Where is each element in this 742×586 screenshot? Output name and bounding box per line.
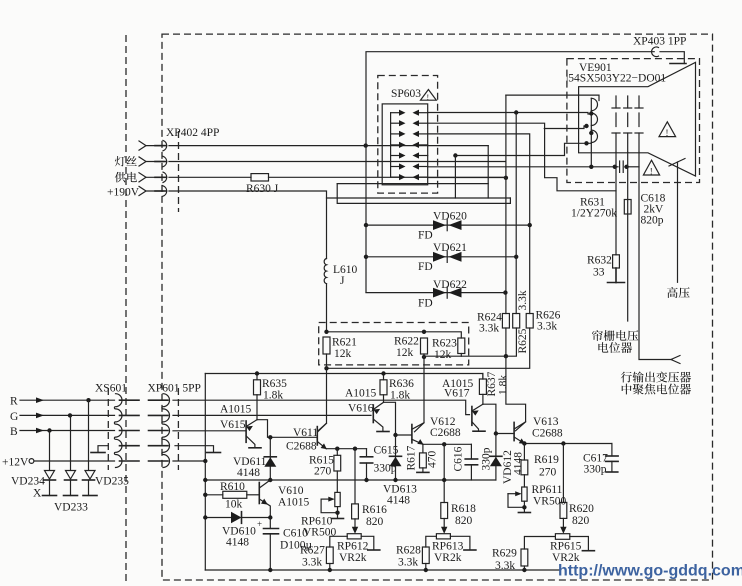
outer dashed border box bbox=[162, 34, 713, 580]
svg-text:RP612: RP612 bbox=[337, 541, 369, 553]
node VD621 row R625 column bbox=[514, 255, 518, 259]
svg-text:XS601: XS601 bbox=[95, 383, 127, 395]
node bus VD620 bbox=[364, 223, 368, 227]
node RP610 wiper join bbox=[335, 511, 339, 515]
svg-text:330p: 330p bbox=[584, 464, 607, 476]
inductor L610 bbox=[324, 259, 326, 284]
warning triangle SP603 bbox=[421, 90, 437, 103]
svg-text:R627: R627 bbox=[300, 545, 325, 557]
svg-text:VD620: VD620 bbox=[433, 211, 467, 223]
wire SP603 row7 supply tap bbox=[428, 177, 506, 179]
resistor R615 bbox=[334, 449, 341, 493]
label 供电 bbox=[115, 172, 137, 183]
node supply row R624 column bbox=[504, 176, 508, 180]
capacitor C610 bbox=[257, 518, 279, 571]
wire V613 emitter rail bbox=[524, 443, 612, 445]
wire maze row alpha bbox=[337, 183, 488, 185]
wire 12k box top line bbox=[327, 332, 462, 338]
node C610 bottom bbox=[268, 568, 272, 572]
svg-text:VD233: VD233 bbox=[54, 502, 88, 514]
wire R624 column upper bbox=[505, 95, 507, 313]
protection diode VD233 bbox=[64, 415, 78, 495]
svg-text:J: J bbox=[340, 275, 345, 287]
resistor R624 bbox=[502, 314, 509, 329]
svg-text:R637: R637 bbox=[486, 371, 498, 396]
node emitter C610 join bbox=[268, 515, 272, 519]
transistor V612 bbox=[412, 423, 424, 445]
diode VD613 bbox=[390, 435, 402, 480]
wire G1 column to R632 bbox=[615, 152, 617, 255]
svg-text:4148: 4148 bbox=[237, 467, 260, 479]
svg-text:B: B bbox=[10, 426, 18, 438]
svg-text:12k: 12k bbox=[434, 349, 452, 361]
svg-text:!: ! bbox=[666, 128, 669, 138]
label 中聚焦电位器 bbox=[622, 384, 691, 395]
resistor R623 bbox=[458, 338, 465, 354]
diode VD611 bbox=[264, 437, 276, 480]
wire R625 column bbox=[515, 113, 517, 314]
node VD611 tap bbox=[268, 435, 272, 439]
svg-text:+190V: +190V bbox=[107, 187, 140, 199]
node heater tap2 bbox=[584, 124, 588, 128]
node R635 top bbox=[255, 371, 259, 375]
wire maze row beta bbox=[327, 197, 511, 199]
svg-text:270: 270 bbox=[314, 466, 332, 478]
node 12k line L610 bbox=[324, 330, 328, 334]
svg-text:270: 270 bbox=[539, 467, 557, 479]
wire L610 to 12k box bbox=[326, 284, 328, 332]
node row1 R625 column bbox=[514, 110, 518, 114]
resistor R637 bbox=[479, 374, 486, 405]
node R610 left bbox=[203, 493, 207, 497]
svg-text:|54SX503Y22−DO01: |54SX503Y22−DO01 bbox=[566, 73, 666, 85]
wire G input bbox=[20, 413, 115, 419]
heater filament bbox=[591, 98, 597, 167]
node heater tap1 bbox=[589, 111, 593, 115]
svg-text:RP611: RP611 bbox=[532, 484, 563, 496]
node VD612 tap bbox=[494, 431, 498, 435]
node heater bottom bbox=[584, 141, 588, 145]
svg-text:R629: R629 bbox=[492, 548, 517, 560]
svg-text:R635: R635 bbox=[262, 378, 287, 390]
svg-text:R622: R622 bbox=[394, 336, 419, 348]
capacitor C618 in cathode line bbox=[614, 161, 639, 172]
wire R624 bottom to line A bbox=[505, 328, 507, 356]
node VD613 tap bbox=[393, 433, 397, 437]
protection diode VD235 bbox=[83, 400, 98, 495]
svg-text:C2688: C2688 bbox=[286, 441, 317, 453]
cable boundary dashed line bbox=[125, 35, 127, 584]
XP402 pin 2 bbox=[139, 156, 167, 166]
resistor R629 bbox=[521, 549, 528, 570]
connector XP402 dashed pin boundary bbox=[178, 131, 180, 212]
svg-text:G: G bbox=[10, 411, 18, 423]
node rail R618 bbox=[442, 478, 446, 482]
svg-text:4148: 4148 bbox=[387, 495, 410, 507]
svg-text:V616: V616 bbox=[348, 403, 374, 415]
diode VD610 bbox=[205, 512, 271, 524]
wire R626 bottom to line B bbox=[327, 328, 530, 368]
video amp board box left edge bbox=[204, 374, 206, 571]
svg-text:+12V: +12V bbox=[2, 457, 29, 469]
node line A R622 column bbox=[422, 355, 426, 359]
svg-text:A1015: A1015 bbox=[345, 388, 377, 400]
svg-text:R618: R618 bbox=[451, 503, 476, 515]
svg-text:VR2k: VR2k bbox=[434, 552, 462, 564]
wire SP603 row1 to heater bbox=[428, 113, 592, 115]
node R619 tap bbox=[522, 441, 526, 445]
wire R input bbox=[20, 397, 115, 403]
wire R623 bottom stub bbox=[460, 354, 462, 357]
svg-text:C615: C615 bbox=[374, 445, 399, 457]
svg-text:VR2k: VR2k bbox=[339, 552, 367, 564]
svg-text:R616: R616 bbox=[362, 504, 387, 516]
ground V615 collector bbox=[249, 447, 261, 449]
node C618 left bbox=[613, 165, 617, 169]
wire +12V row into board bbox=[173, 460, 205, 462]
svg-text:R: R bbox=[10, 396, 18, 408]
svg-text:R625: R625 bbox=[517, 328, 529, 353]
resistor R619 bbox=[521, 444, 528, 488]
svg-text:C610: C610 bbox=[283, 528, 308, 540]
wire SP603 row3 to R626 column bbox=[428, 134, 530, 314]
svg-text:820: 820 bbox=[366, 516, 384, 528]
node R drop bbox=[86, 398, 90, 402]
svg-text:FD: FD bbox=[418, 261, 433, 273]
wire +12V input bbox=[29, 459, 114, 464]
node R615 tap bbox=[335, 447, 339, 451]
dashed box R621 R622 R623 bbox=[319, 323, 469, 365]
svg-text:R620: R620 bbox=[569, 503, 594, 515]
wire line A bbox=[424, 328, 516, 356]
warning triangle lower bbox=[643, 160, 659, 176]
connector XP601 plug bbox=[162, 394, 170, 468]
resistor R636 bbox=[380, 374, 387, 403]
svg-text:XP601 5PP: XP601 5PP bbox=[148, 383, 201, 395]
svg-text:RP613: RP613 bbox=[432, 541, 464, 553]
node row5 tap bbox=[453, 153, 457, 157]
svg-text:RP615: RP615 bbox=[550, 541, 582, 553]
potentiometer RP615 bbox=[524, 534, 594, 551]
dashed marks XP601 bbox=[177, 388, 179, 470]
svg-text:R619: R619 bbox=[534, 454, 559, 466]
wire V617 emitter to V613 base bbox=[483, 404, 514, 433]
node R628 bottom bbox=[424, 568, 428, 572]
svg-text:A1015: A1015 bbox=[278, 497, 310, 509]
svg-text:330p: 330p bbox=[481, 447, 493, 470]
label 高压 bbox=[667, 287, 690, 298]
svg-text:VR500: VR500 bbox=[533, 496, 566, 508]
ground left shield bbox=[91, 446, 108, 453]
svg-text:XP402 4PP: XP402 4PP bbox=[166, 127, 219, 139]
trimmer RP610 bbox=[321, 492, 343, 518]
wire supply row from R630 to corner bbox=[269, 176, 506, 178]
capacitor C616 bbox=[465, 444, 477, 480]
svg-text:V610: V610 bbox=[278, 485, 304, 497]
svg-text:4148: 4148 bbox=[513, 452, 525, 475]
wire pin4 +190V row bbox=[169, 191, 327, 259]
resistor R621 bbox=[323, 337, 330, 354]
svg-text:SP603: SP603 bbox=[391, 88, 421, 100]
wire V612 emitter rail bbox=[423, 443, 472, 445]
node VD610 left bbox=[203, 515, 207, 519]
svg-text:R630 J: R630 J bbox=[246, 183, 279, 195]
svg-text:3.3k: 3.3k bbox=[398, 557, 418, 569]
node R616 tap bbox=[353, 447, 357, 451]
tube electrode G2 bbox=[624, 96, 632, 152]
transistor V613 bbox=[514, 422, 526, 444]
SP603 left bus bbox=[390, 113, 392, 177]
svg-text:3.3k: 3.3k bbox=[495, 560, 515, 572]
svg-text:12k: 12k bbox=[334, 348, 352, 360]
node R620 tap bbox=[561, 441, 565, 445]
node bus VD621 bbox=[364, 255, 368, 259]
svg-text:V613: V613 bbox=[533, 416, 559, 428]
wire V615 emitter to V611 base bbox=[257, 420, 317, 438]
svg-text:V611: V611 bbox=[293, 427, 318, 439]
XP402 pin 3 bbox=[139, 172, 167, 182]
svg-text:12k: 12k bbox=[396, 347, 414, 359]
bidirectional diode VD621 bbox=[366, 251, 516, 262]
wire B row into board bbox=[173, 430, 246, 432]
dashed marks XS601 bbox=[107, 388, 109, 470]
svg-text:X: X bbox=[33, 488, 42, 500]
svg-text:R621: R621 bbox=[332, 337, 357, 349]
wire V616 emitter to V612 base bbox=[384, 402, 412, 435]
spark-gap assembly SP603 dashed box bbox=[378, 76, 438, 194]
svg-text:R617: R617 bbox=[406, 445, 418, 470]
resistor R628 bbox=[422, 547, 429, 570]
ground V616 collector bbox=[377, 431, 389, 433]
wire focus G3 column to wiper bbox=[639, 152, 672, 359]
node G drop bbox=[68, 413, 72, 417]
transistor V617 bbox=[472, 404, 483, 430]
resistor R626 bbox=[526, 314, 533, 329]
resistor R622 bbox=[421, 338, 428, 354]
svg-text:+: + bbox=[257, 519, 262, 529]
svg-text:820: 820 bbox=[455, 515, 473, 527]
node line A R624 bbox=[504, 354, 508, 358]
resistor R616 bbox=[352, 449, 359, 534]
svg-text:http://www.go-gddq.com: http://www.go-gddq.com bbox=[558, 563, 742, 580]
resistor R632 bbox=[613, 255, 620, 268]
svg-text:1.8k: 1.8k bbox=[498, 375, 510, 395]
svg-text:R610: R610 bbox=[220, 481, 245, 493]
svg-text:820: 820 bbox=[572, 515, 590, 527]
SP603 arrow rows bbox=[391, 113, 428, 177]
svg-text:10k: 10k bbox=[225, 499, 243, 511]
connector XS601 socket bbox=[114, 394, 122, 468]
svg-text:3.3k: 3.3k bbox=[517, 290, 529, 310]
svg-text:3.3k: 3.3k bbox=[302, 557, 322, 569]
svg-text:820p: 820p bbox=[641, 215, 664, 227]
focus pot wiper arrow bbox=[671, 356, 680, 364]
trimmer RP611 bbox=[508, 487, 530, 513]
node cathode junction bbox=[589, 165, 593, 169]
svg-text:33: 33 bbox=[593, 267, 605, 279]
XP402 pin 4 bbox=[139, 186, 167, 196]
wire SP603 row6 cathode row bbox=[428, 166, 615, 168]
wire pin1 heater-ground row bbox=[169, 145, 488, 147]
svg-text:A1015: A1015 bbox=[220, 404, 252, 416]
resistor R625 bbox=[513, 314, 520, 329]
resistor R630 bbox=[251, 174, 269, 181]
svg-text:R623: R623 bbox=[432, 338, 457, 350]
svg-text:3.3k: 3.3k bbox=[479, 323, 499, 335]
capacitor C617 bbox=[606, 444, 618, 473]
svg-text:1.8k: 1.8k bbox=[390, 390, 410, 402]
wire pin3 supply row to R630 bbox=[169, 176, 251, 178]
svg-text:C616: C616 bbox=[453, 446, 465, 471]
label 行输出变压器 bbox=[621, 372, 691, 383]
wire SP603 row5 jog to heater bottom bbox=[455, 143, 591, 155]
wire R621 bottom to V611 collector bbox=[318, 354, 327, 432]
wire R row into board bbox=[173, 400, 470, 414]
svg-text:L610: L610 bbox=[333, 264, 358, 276]
resistor R610 bbox=[205, 491, 258, 498]
anode contact bbox=[669, 159, 685, 167]
svg-text:FD: FD bbox=[418, 230, 433, 242]
resistor R617 bbox=[417, 444, 429, 472]
node C618 right bbox=[624, 165, 628, 169]
wire row5 tap down bbox=[454, 156, 456, 199]
node rail VD613 bbox=[393, 478, 397, 482]
node pin1 x bus junction bbox=[364, 143, 368, 147]
node B drop bbox=[47, 428, 51, 432]
wire SP603 row2 down at 544 bbox=[428, 123, 616, 191]
node heater tap3 bbox=[589, 131, 593, 135]
node R636 top bbox=[381, 371, 385, 375]
ground R632 bbox=[608, 268, 625, 283]
picture tube VE901 dashed box bbox=[567, 59, 700, 183]
protection diode VD234 bbox=[43, 431, 57, 496]
svg-text:V617: V617 bbox=[444, 388, 470, 400]
svg-text:FD: FD bbox=[418, 298, 433, 310]
resistor R618 bbox=[441, 503, 448, 534]
svg-text:C2688: C2688 bbox=[430, 427, 461, 439]
resistor R620 bbox=[560, 444, 567, 534]
warning triangle in tube bbox=[659, 122, 676, 138]
wire anode to 高压 bbox=[677, 162, 679, 282]
svg-text:VD621: VD621 bbox=[433, 242, 467, 254]
svg-text:VD235: VD235 bbox=[95, 476, 129, 488]
connector XP403 bbox=[652, 47, 686, 64]
node 12k line R622 bbox=[422, 330, 426, 334]
svg-text:!: ! bbox=[650, 166, 653, 176]
bidirectional diode VD622 bbox=[366, 287, 505, 298]
wire G2 column to R631 bbox=[627, 152, 629, 321]
resistor R631 bbox=[624, 200, 631, 215]
node R627 bottom bbox=[328, 568, 332, 572]
wire R624 column to V613 collector bbox=[506, 356, 526, 431]
svg-text:V615: V615 bbox=[220, 419, 246, 431]
wire amp supply top rail bbox=[205, 374, 483, 380]
XP402 pin 1 bbox=[139, 140, 167, 150]
bidirectional diode VD620 bbox=[366, 220, 530, 231]
svg-text:4148: 4148 bbox=[226, 537, 249, 549]
ground right shield bbox=[175, 446, 221, 453]
svg-text:R636: R636 bbox=[389, 378, 414, 390]
label 帘栅电压 电位器 bbox=[592, 330, 638, 341]
wire pin2 row bbox=[169, 161, 506, 163]
wire amp bottom rail bbox=[205, 569, 560, 571]
node line B R621 column bbox=[324, 366, 328, 370]
svg-text:C2688: C2688 bbox=[532, 428, 563, 440]
node +12V at board edge bbox=[203, 459, 207, 463]
node rail C615 bbox=[364, 478, 368, 482]
tube electrode G3 bbox=[635, 96, 643, 152]
transistor V611 bbox=[317, 423, 327, 449]
node V612 rail drop bbox=[442, 442, 446, 446]
svg-text:1.8k: 1.8k bbox=[263, 390, 283, 402]
tube electrode G1 bbox=[612, 96, 620, 152]
svg-text:XP403 1PP: XP403 1PP bbox=[633, 36, 686, 48]
node rail left bbox=[203, 478, 207, 482]
svg-text:470: 470 bbox=[427, 451, 439, 469]
node rail VD611 bbox=[268, 478, 272, 482]
wire G row into board bbox=[173, 414, 371, 416]
connector XP601 pins bbox=[149, 400, 169, 461]
node RP611 wiper join bbox=[522, 505, 526, 509]
SP603 inner box bbox=[382, 104, 428, 185]
transistor V616 bbox=[373, 402, 383, 431]
svg-text:R632: R632 bbox=[587, 255, 612, 267]
picture tube funnel outline bbox=[579, 62, 696, 176]
wire V611 emitter rail bbox=[326, 448, 366, 450]
potentiometer RP612 bbox=[330, 534, 380, 550]
wire board mid rail bbox=[205, 479, 496, 481]
node R629 bottom bbox=[522, 568, 526, 572]
svg-text:VD234: VD234 bbox=[11, 476, 45, 488]
wire B input bbox=[20, 428, 115, 434]
wire ground bus left of SP603 to XP403 bbox=[366, 52, 654, 293]
wire maze riser pin1 bbox=[487, 146, 489, 198]
wire drop to R618 bbox=[443, 444, 445, 502]
svg-text:1/2Y270k: 1/2Y270k bbox=[571, 208, 617, 220]
wire heater top feed bbox=[506, 95, 599, 100]
wire R622 bottom to V612 collector bbox=[415, 354, 425, 432]
resistor R627 bbox=[326, 547, 333, 570]
node R626 top VD620 bbox=[528, 223, 532, 227]
resistor R635 bbox=[254, 374, 261, 420]
transistor V610 bbox=[259, 480, 270, 518]
svg-text:VD622: VD622 bbox=[433, 279, 467, 291]
wire maze row gamma bbox=[337, 184, 510, 204]
transistor V615 bbox=[246, 420, 257, 447]
connector XS601 pins bbox=[120, 400, 140, 461]
svg-text:!: ! bbox=[427, 93, 430, 102]
ground V617 collector bbox=[473, 430, 485, 432]
capacitor C615 bbox=[360, 449, 372, 480]
diode VD612 bbox=[490, 434, 502, 481]
label 灯丝 bbox=[115, 156, 137, 166]
potentiometer RP613 bbox=[426, 534, 476, 550]
svg-text:R628: R628 bbox=[396, 545, 421, 557]
node VD622 row R624 column bbox=[503, 290, 507, 294]
wire heater mid feed bbox=[544, 126, 586, 129]
svg-text:3.3k: 3.3k bbox=[537, 321, 557, 333]
